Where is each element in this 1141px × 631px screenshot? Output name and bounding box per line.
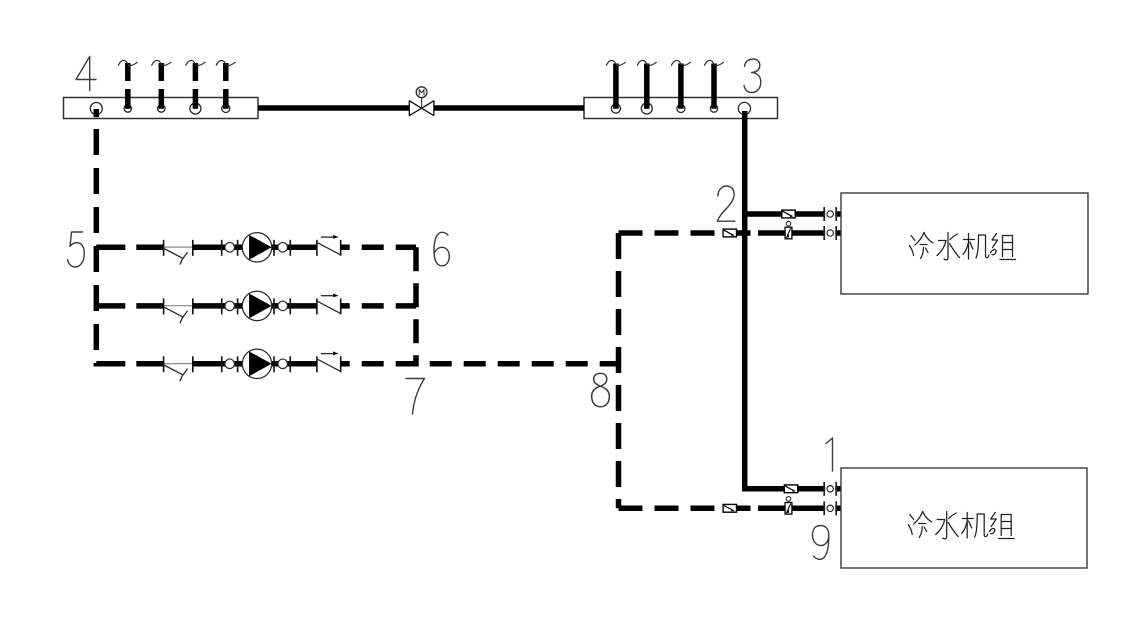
node label 4 (left header) (76, 57, 96, 91)
flange pair on upper chiller return (824, 226, 836, 240)
riser stub (solid) above right header at x=646.8 (637, 60, 656, 108)
riser stub (dashed) above left header at x=161.3 (152, 60, 171, 108)
wire: lower chiller return pipe dashed segment (619, 506, 763, 512)
node L2 (left header outlet circle) (124, 105, 131, 112)
node R3 (right header inlet circle) (677, 105, 685, 113)
wire: branch 3 solid pipe through pump section (193, 361, 317, 367)
wire: branch 3 dashed pipe (check valve to riser 8) (341, 361, 619, 367)
flex joint circle (pump 2 discharge) (274, 298, 290, 314)
wire: dashed riser 6 (connects branches 1-3 on right) (413, 247, 419, 366)
wire: upper chiller return pipe dashed segment (619, 230, 763, 236)
pump P3 (circle with filled triangle) (242, 349, 271, 378)
node label 2 (upper chiller return) (717, 186, 735, 221)
riser stub (dashed) above left header at x=127.8 (118, 60, 137, 108)
node label 8 (return riser) (592, 373, 610, 407)
motorized valve V1 (bowtie with M actuator) (409, 87, 434, 116)
pump P2 (circle with filled triangle) (242, 291, 271, 320)
wire: left dashed riser from node L1 down to branch 3 (94, 109, 100, 367)
wire: solid vertical main from right header (node 3) down to lower chiller supply elbow (742, 111, 748, 492)
wire: branch 2 dashed pipe (riser 5 to butterfly valve) (96, 303, 163, 309)
flex joint circle (pump 1 discharge) (274, 240, 290, 256)
wire: branch 1 solid pipe through pump section (193, 245, 317, 251)
riser stub (dashed) above left header at x=195.4 (186, 60, 205, 108)
strainer F2 on upper chiller return (723, 229, 736, 237)
flange pair on lower chiller return (824, 501, 836, 515)
wire: branch 3 dashed pipe (riser 5 to butterfly valve) (96, 361, 163, 367)
flex joint circle (pump 2 suction) (222, 298, 238, 314)
node R4 (right header inlet circle) (710, 105, 717, 112)
node L1 (left header outlet circle) (90, 103, 102, 115)
wire: branch 2 dashed pipe (check valve to riser 6) (341, 303, 416, 309)
node label 7 (branch junction) (406, 379, 425, 415)
node R1 (right header inlet circle) (611, 104, 620, 113)
flex joint circle (pump 3 suction) (222, 356, 238, 372)
wire: top main pipe left segment (H1 to valve V1) (258, 105, 409, 111)
flange pair on upper chiller supply (824, 207, 836, 221)
riser stub (dashed) above left header at x=225.8 (216, 60, 235, 108)
butterfly valve BV2 (164, 298, 193, 322)
node L4 (left header outlet circle) (190, 103, 201, 114)
chiller unit box U2 (lower 冷水机组) (841, 468, 1087, 568)
chiller unit box U1 (upper 冷水机组) (841, 193, 1088, 294)
pump P1 (circle with filled triangle) (242, 233, 271, 262)
butterfly valve BV1 (164, 240, 193, 264)
flange pair on lower chiller supply (824, 482, 836, 496)
wire: branch 2 solid pipe through pump section (193, 303, 317, 309)
riser stub (solid) above right header at x=615.9 (606, 60, 625, 108)
label: 冷水机组 text in lower chiller box (908, 512, 1014, 539)
node label 1 (upper flange of lower chiller) (826, 438, 833, 471)
motorized two-way valve MV2 on lower chiller return (785, 497, 792, 514)
node R2 (right header inlet circle) (641, 103, 652, 114)
check valve CV1 (with flow arrow) (317, 235, 341, 256)
node label 9 (lower flange of lower chiller) (813, 526, 829, 560)
node L5 (left header outlet circle) (222, 105, 230, 113)
check valve CV2 (with flow arrow) (317, 294, 341, 315)
check valve CV3 (with flow arrow) (317, 351, 341, 372)
wire: upper chiller supply pipe (solid) (745, 211, 841, 217)
wire: upper chiller return pipe solid segment (758, 230, 841, 236)
motorized two-way valve MV1 on upper chiller return (785, 221, 792, 239)
wire: lower chiller supply pipe (solid, from vertical main elbow) (742, 486, 841, 492)
strainer F4 on lower chiller return (723, 504, 736, 512)
header manifold H2 (right collector) (584, 98, 778, 119)
wire: top main pipe right segment (valve V1 to H2) (434, 105, 584, 111)
strainer F1 on upper chiller supply (782, 210, 795, 218)
node label 5 (pump suction riser) (68, 232, 85, 267)
node L3 (left header outlet circle) (158, 105, 165, 112)
node R5 (right header inlet circle) (738, 102, 750, 114)
label: 冷水机组 text in upper chiller box (910, 233, 1016, 260)
butterfly valve BV3 (164, 356, 193, 380)
flex joint circle (pump 3 discharge) (274, 356, 290, 372)
header manifold H1 (left distributor) (64, 98, 259, 119)
flex joint circle (pump 1 suction) (222, 240, 238, 256)
strainer F3 on lower chiller supply (784, 485, 797, 493)
wire: branch 1 dashed pipe (check valve to riser 6) (341, 245, 416, 251)
node label 6 (pump discharge riser) (434, 232, 449, 265)
wire: branch 1 dashed pipe (riser 5 to butterfly valve) (96, 245, 163, 251)
wire: lower chiller return pipe solid segment (758, 506, 841, 512)
riser stub (solid) above right header at x=714.0 (705, 60, 724, 108)
wire: dashed riser 8 (vertical between node 7/8 and chiller returns) (616, 233, 622, 508)
node label 3 (right header) (744, 59, 761, 93)
riser stub (solid) above right header at x=680.9 (671, 60, 690, 108)
